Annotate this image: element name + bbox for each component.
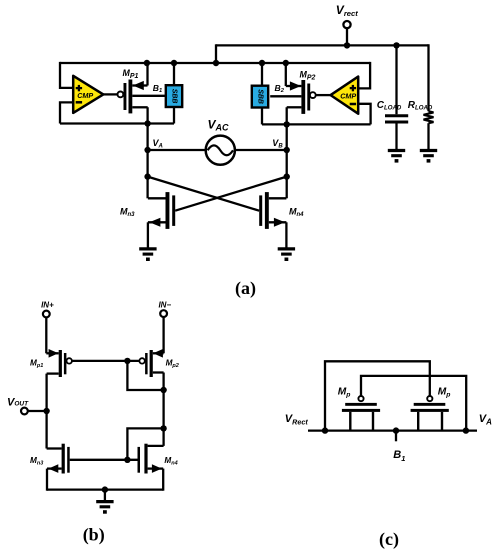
- caption (c): [379, 529, 399, 550]
- label Vrect: [336, 3, 358, 18]
- wire main rail (c): [308, 429, 477, 431]
- svg-text:IN−: IN−: [158, 301, 171, 310]
- resistor RLOAD: [424, 44, 434, 150]
- wire NMOS gate feed (b): [127, 428, 163, 459]
- transistor MP1 label: [123, 68, 139, 80]
- wire Mn4 drain riser: [286, 177, 288, 199]
- transistor Mn4 label (b): [164, 456, 177, 467]
- terminal IN-: [160, 310, 167, 353]
- SBB block B2: [252, 86, 268, 108]
- junction dot Vrect-rail: [344, 42, 350, 48]
- wire cross gate B to Mn3: [175, 177, 287, 211]
- wire gate line PMOS pair (b): [72, 360, 139, 362]
- svg-text:IN+: IN+: [41, 301, 54, 310]
- wire MP2 drain to node B: [286, 107, 288, 176]
- svg-text:Mn4: Mn4: [164, 456, 177, 467]
- junction dot CLOAD-rail: [393, 42, 399, 48]
- wire CMP2 output: [316, 94, 331, 96]
- transistor Mn4 label: [289, 206, 304, 218]
- transistor Mn4: [259, 192, 286, 229]
- caption (a): [235, 278, 256, 299]
- transistor Mp right label (c): [438, 387, 451, 399]
- wire SBB1 top riser: [173, 63, 175, 85]
- svg-text:VA: VA: [479, 413, 492, 427]
- ground Mn4: [278, 249, 295, 261]
- capacitor CLOAD: [385, 45, 408, 150]
- terminal IN- label: [158, 301, 171, 310]
- transistor Mn4 (b): [138, 444, 164, 491]
- svg-text:(a): (a): [235, 278, 256, 299]
- junction dot mid (b): [160, 425, 166, 431]
- wire Mn3 source drop: [147, 222, 149, 249]
- svg-text:B1: B1: [153, 83, 162, 94]
- wire cross second (c): [361, 376, 466, 431]
- wire SBB1 bottom riser: [173, 107, 175, 124]
- junction dot MP2 source: [283, 60, 289, 66]
- label B1: [153, 83, 162, 94]
- transistor Mp left label (c): [338, 387, 351, 399]
- transistor MP1: [118, 80, 148, 114]
- svg-text:VA: VA: [153, 138, 163, 150]
- transistor Mp2 (b): [139, 349, 163, 377]
- wire cross gate A to Mn4: [148, 177, 260, 211]
- wire VB horizontal upper: [262, 123, 371, 125]
- capacitor CLOAD label: [377, 100, 402, 112]
- wire second rail: [60, 62, 370, 64]
- ground RLOAD: [420, 151, 437, 163]
- wire SBB2 bottom riser: [261, 108, 263, 125]
- wire rail riser: [215, 44, 217, 63]
- terminal IN+: [43, 311, 50, 354]
- svg-text:Mn3: Mn3: [30, 456, 43, 467]
- svg-text:(c): (c): [379, 529, 399, 550]
- svg-text:CLOAD: CLOAD: [377, 100, 402, 112]
- svg-text:(b): (b): [83, 525, 105, 546]
- transistor Mn3: [148, 192, 175, 229]
- wire Mp2 drain vertical (b): [162, 373, 164, 446]
- junction dot B3n: [284, 173, 290, 179]
- junction dot riser: [213, 60, 219, 66]
- svg-text:VB: VB: [272, 138, 283, 150]
- wire Mn3 drain riser: [146, 177, 148, 199]
- junction dot VRect (c): [322, 427, 328, 433]
- wire SBB2 top riser: [261, 63, 263, 86]
- label B2: [275, 83, 285, 94]
- junction dot MP1 source: [144, 60, 150, 66]
- svg-text:Mp: Mp: [438, 387, 451, 399]
- junction dot drain tie (b): [160, 387, 166, 393]
- svg-text:VRect: VRect: [285, 413, 309, 427]
- ground (b): [96, 502, 113, 514]
- transistor Mp1 label (b): [30, 358, 43, 369]
- label VA (c): [479, 413, 492, 427]
- ground Mn3: [139, 249, 156, 261]
- wire NMOS gate line (b): [70, 459, 138, 461]
- wire diode-connect drop (b): [127, 361, 163, 390]
- wire CMP2 + input: [358, 62, 370, 89]
- transistor Mn3 label (b): [30, 456, 43, 467]
- svg-text:CMP: CMP: [340, 92, 356, 101]
- caption (b): [83, 525, 105, 546]
- svg-text:B2: B2: [275, 83, 285, 94]
- wire Mn4 source drop: [285, 222, 287, 249]
- svg-text:Mp2: Mp2: [166, 358, 179, 369]
- node VA label: [153, 138, 163, 150]
- wire cross top (c): [325, 361, 430, 430]
- wire MP1 body to B1: [132, 95, 166, 97]
- junction dot SBB2 top: [259, 60, 265, 66]
- terminal VOUT: [21, 408, 47, 415]
- svg-text:VAC: VAC: [208, 118, 230, 133]
- svg-text:MP1: MP1: [123, 68, 139, 80]
- wire MP2 body to B2: [270, 95, 301, 97]
- svg-text:VOUT: VOUT: [7, 396, 29, 408]
- label B1 (c): [393, 449, 405, 463]
- junction dot SBB1 top: [171, 60, 177, 66]
- svg-text:CMP: CMP: [77, 91, 93, 100]
- svg-text:MP2: MP2: [300, 70, 316, 82]
- junction dot A3: [144, 173, 150, 179]
- junction dot B1 (c): [393, 427, 399, 433]
- transistor Mp1 (b): [46, 349, 72, 377]
- node VB label: [272, 138, 283, 150]
- wire VA to source: [148, 149, 207, 151]
- wire MP1 source riser: [146, 63, 148, 86]
- source VAC (AC source): [206, 136, 235, 165]
- SBB block B1: [166, 85, 182, 107]
- transistor Mn3 (b): [47, 444, 70, 491]
- terminal Vrect: [343, 21, 350, 45]
- junction dot B2n: [284, 147, 290, 153]
- wire CMP1 output: [103, 93, 118, 95]
- transistor Mp right (c): [411, 396, 449, 431]
- label VRect (c): [285, 413, 309, 427]
- transistor Mp left (c): [342, 396, 380, 431]
- wire ground stem (b): [104, 490, 106, 502]
- wire top rail: [216, 44, 429, 46]
- wire MP1 drain to node A: [146, 107, 148, 176]
- ground CLOAD: [388, 151, 405, 163]
- junction dot NMOS gate (b): [124, 457, 130, 463]
- wire CMP1 - input: [60, 102, 74, 123]
- svg-text:Mn4: Mn4: [289, 206, 304, 218]
- transistor Mp2 label (b): [166, 358, 179, 369]
- source VAC label: [208, 118, 230, 133]
- terminal VOUT label: [7, 396, 29, 408]
- transistor Mn3 label: [120, 206, 135, 218]
- junction dot ground (b): [102, 486, 108, 492]
- transistor MP2 label: [300, 70, 316, 82]
- svg-text:Mp: Mp: [338, 387, 351, 399]
- junction dot VOUT: [43, 408, 49, 414]
- wire bottom rail (b): [47, 488, 163, 490]
- wire CMP1 + input: [60, 62, 74, 88]
- wire VA horizontal upper: [60, 122, 174, 124]
- wire CMP2 - input: [358, 104, 371, 125]
- wire B1 stub (c): [395, 431, 397, 442]
- junction dot gate (b): [124, 358, 130, 364]
- transistor MP2: [286, 80, 316, 114]
- junction dot B1n: [284, 121, 290, 127]
- resistor RLOAD label: [408, 100, 433, 112]
- svg-text:SBB: SBB: [257, 89, 264, 104]
- junction dot A1: [144, 120, 150, 126]
- svg-text:Mn3: Mn3: [120, 206, 135, 218]
- op-amp U2 CMP (right comparator): [331, 77, 359, 114]
- terminal IN+ label: [41, 301, 54, 310]
- wire MP2 source riser: [285, 63, 287, 86]
- svg-text:SBB: SBB: [171, 89, 178, 104]
- svg-text:Mp1: Mp1: [30, 358, 43, 369]
- op-amp U1 CMP (left comparator): [73, 76, 103, 113]
- junction dot VA (c): [463, 427, 469, 433]
- svg-text:B1: B1: [393, 449, 405, 463]
- wire Mp1 drain vertical (b): [45, 374, 47, 449]
- junction dot A2: [144, 147, 150, 153]
- svg-text:Vrect: Vrect: [336, 3, 358, 18]
- wire source to VB: [234, 149, 287, 151]
